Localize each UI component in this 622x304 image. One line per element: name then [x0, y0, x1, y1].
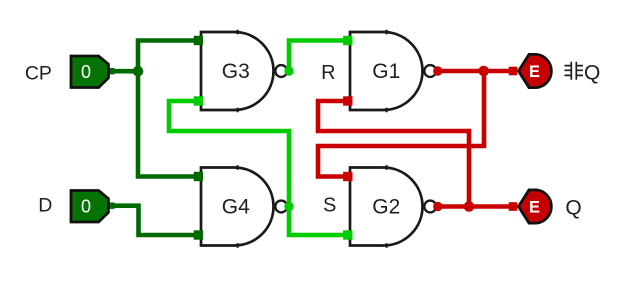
G2 output inversion bubble — [424, 201, 436, 213]
svg-text:CP: CP — [25, 63, 52, 85]
label D — [38, 195, 52, 217]
G4 output inversion bubble — [275, 201, 287, 213]
wire CP switch to junction — [108, 68, 138, 74]
Q output indicator (E probe) — [519, 190, 552, 223]
NOT-Q output indicator connector — [509, 67, 518, 76]
wire G4 output up to G3 bottom input — [169, 101, 289, 207]
label CP — [25, 63, 52, 85]
svg-text:G2: G2 — [372, 196, 400, 219]
G3 output connection dot — [284, 66, 293, 75]
wire G4 output to G2 bottom input (node S) — [289, 207, 344, 236]
G4 output connection dot — [284, 202, 293, 211]
G4 bottom input pin — [194, 230, 203, 239]
feedback wire G2 output to G1 bottom input — [318, 101, 469, 207]
wire G3 output to G1 top input (node R) — [289, 41, 344, 72]
junction dot on G2 output net — [464, 201, 475, 212]
svg-text:Q: Q — [584, 62, 600, 85]
svg-text:0: 0 — [81, 197, 91, 217]
G3 top input pin — [194, 36, 203, 45]
svg-text:G4: G4 — [222, 196, 250, 219]
svg-text:G1: G1 — [372, 60, 400, 83]
G1 output connection dot — [433, 66, 442, 75]
input switch D value 0 — [71, 191, 108, 223]
gate edge tick marks — [238, 30, 387, 248]
label node R — [321, 62, 335, 84]
G2 bottom input pin — [343, 230, 352, 239]
svg-text:Q: Q — [565, 196, 581, 219]
NOT-Q output indicator (E probe) — [519, 54, 552, 87]
svg-text:D: D — [38, 195, 52, 217]
svg-text:G3: G3 — [222, 60, 250, 83]
label G2 — [372, 196, 400, 219]
label node S — [323, 195, 336, 217]
G3 output inversion bubble — [275, 65, 287, 77]
label NOT-Q (drawn fei glyph + Q) — [565, 62, 601, 85]
G1 bottom input pin — [343, 96, 352, 105]
label Q — [565, 196, 581, 219]
NAND gate G1 body — [350, 32, 423, 110]
G1 top input pin — [343, 36, 352, 45]
G3 bottom input pin — [194, 96, 203, 105]
label G1 — [372, 60, 400, 83]
G2 output connection dot — [433, 202, 442, 211]
G1 output inversion bubble — [424, 65, 436, 77]
NAND gate G2 body — [350, 168, 423, 246]
G4 top input pin — [194, 172, 203, 181]
svg-text:E: E — [529, 63, 540, 81]
junction dot on G1 output net — [478, 66, 489, 77]
svg-text:R: R — [321, 62, 335, 84]
wire CP junction branch to G3 top input and G4 top input — [138, 41, 198, 177]
input switch CP value 0 — [71, 56, 108, 88]
svg-text:S: S — [323, 195, 336, 217]
label G4 — [222, 196, 250, 219]
G2 top input pin — [343, 172, 352, 181]
NAND gate G4 body — [201, 168, 274, 246]
svg-text:0: 0 — [81, 62, 91, 82]
wire G2 output to Q indicator — [437, 204, 509, 209]
wire G1 output to NOT-Q indicator — [437, 69, 509, 74]
Q output indicator connector — [509, 202, 518, 211]
svg-text:E: E — [529, 199, 540, 217]
wire D switch to G4 bottom input — [108, 206, 198, 235]
label G3 — [222, 60, 250, 83]
feedback wire G1 output to G2 top input — [318, 71, 484, 177]
NAND gate G3 body — [201, 32, 274, 110]
junction dot on CP net — [133, 66, 144, 77]
